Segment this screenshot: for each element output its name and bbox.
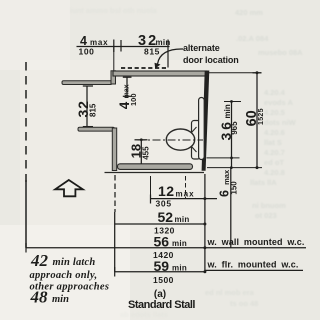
60 / 1525 dimension line [256, 73, 258, 168]
svg-text:ts oo 48: ts oo 48 [230, 299, 258, 308]
svg-text:min: min [223, 104, 232, 118]
svg-text:150: 150 [230, 181, 239, 195]
toilet bowl [166, 129, 194, 150]
svg-text:iunt ammo bsl oth nuola: iunt ammo bsl oth nuola [70, 6, 157, 15]
svg-text:455: 455 [141, 146, 150, 160]
12 max / 305 dimension line [151, 198, 218, 200]
42 min latch note [30, 251, 110, 306]
svg-text:w. flr. mounted w.c.: w. flr. mounted w.c. [207, 259, 299, 269]
toilet centerline [138, 139, 204, 141]
svg-text:12: 12 [158, 183, 175, 199]
svg-text:100: 100 [129, 93, 138, 106]
tick + extension at x168 down to dashed door [167, 40, 169, 68]
svg-text:llat S: llat S [264, 138, 282, 147]
leader arc with arrowhead [158, 49, 184, 64]
extension wall end (6 max bottom / 60 bottom) [207, 167, 262, 169]
svg-text:ab edots llats: ab edots llats [120, 310, 168, 319]
svg-text:min: min [52, 294, 69, 305]
top front wall bar [113, 71, 207, 76]
svg-text:evods A: evods A [264, 98, 293, 107]
svg-text:4.20.6: 4.20.6 [264, 128, 285, 137]
rear grab bar [199, 98, 205, 160]
tick at x114 [113, 40, 115, 53]
extension tank bottom (6 max top) [207, 157, 240, 159]
svg-text:815: 815 [88, 103, 97, 117]
upper-left wall bar [62, 81, 112, 85]
lower-left wall bar [78, 127, 115, 131]
svg-text:4.20.5: 4.20.5 [264, 108, 285, 117]
svg-text:min latch: min latch [53, 257, 96, 268]
56 min / 1420 dimension line [26, 247, 205, 249]
svg-text:4.20.8: 4.20.8 [264, 168, 285, 177]
extension grab bar top (36 min) [224, 101, 241, 103]
svg-text:4.20.4: 4.20.4 [264, 88, 286, 97]
svg-text:door location: door location [183, 55, 239, 65]
svg-text:.02.A 084: .02.A 084 [236, 34, 269, 43]
svg-text:56: 56 [154, 233, 170, 249]
right extension line under rear wall [204, 174, 206, 272]
32 / 815 vertical dimension (door opening) [86, 86, 88, 128]
left boundary dash-dot line [25, 62, 27, 182]
wide line under side wall [105, 172, 205, 174]
svg-text:1525: 1525 [258, 108, 265, 125]
approach direction arrow (hollow) [55, 180, 83, 196]
4 max vertical dimension [126, 77, 128, 97]
svg-text:815: 815 [144, 47, 160, 57]
svg-text:305: 305 [156, 199, 172, 209]
svg-text:ed nl mob era: ed nl mob era [205, 288, 255, 297]
rear wall (dark) [202, 71, 210, 171]
svg-text:musebo 08A: musebo 08A [258, 48, 303, 57]
52 min / 1320 dimension line [115, 223, 205, 225]
tick at x121 [120, 40, 122, 52]
svg-text:42: 42 [30, 251, 49, 270]
svg-text:4.20.7: 4.20.7 [264, 148, 285, 157]
svg-text:100: 100 [79, 47, 95, 57]
toilet tank [192, 121, 201, 160]
59 min / 1500 dimension line [115, 271, 205, 273]
svg-text:approach only,: approach only, [30, 270, 98, 281]
left stall wall (vertical) [112, 128, 116, 171]
svg-text:52: 52 [158, 209, 174, 225]
dashed alternate door line [121, 67, 168, 69]
svg-text:965: 965 [230, 121, 239, 135]
svg-text:420 mm: 420 mm [235, 8, 263, 17]
bottom side wall bar [118, 164, 193, 170]
svg-text:max: max [176, 190, 195, 199]
svg-text:ed oT: ed oT [264, 158, 284, 167]
left extension line for 52/59 [114, 175, 116, 212]
12 max left extension [150, 176, 152, 199]
right extension line top (60) [208, 72, 262, 74]
svg-text:min: min [175, 215, 190, 224]
svg-text:dots niW: dots niW [264, 118, 297, 127]
toilet bowl connector [192, 127, 197, 152]
12 max dashed centerline extension [185, 176, 187, 199]
svg-text:48: 48 [30, 287, 49, 306]
svg-text:Standard Stall: Standard Stall [128, 299, 195, 311]
wall jog vertical piece [111, 71, 116, 84]
svg-text:ni bnuom: ni bnuom [252, 201, 286, 210]
bleed-through text (ghost) [70, 6, 303, 319]
svg-text:w. wall mounted w.c.: w. wall mounted w.c. [207, 237, 305, 247]
svg-text:alternate: alternate [183, 43, 220, 53]
18 / 455 dimension [140, 140, 142, 164]
svg-text:min: min [172, 264, 187, 273]
top dimension line (4 max / 32 min) [77, 46, 170, 48]
svg-text:llats llA: llats llA [250, 178, 277, 187]
svg-text:59: 59 [154, 258, 170, 274]
36 min dimension line continuing as 6 max and stall-depth extension [231, 102, 233, 168]
svg-text:1500: 1500 [153, 275, 174, 285]
svg-text:min: min [172, 239, 187, 248]
extension x114 down to wall jog [113, 46, 115, 71]
svg-text:ot 023: ot 023 [255, 211, 277, 220]
